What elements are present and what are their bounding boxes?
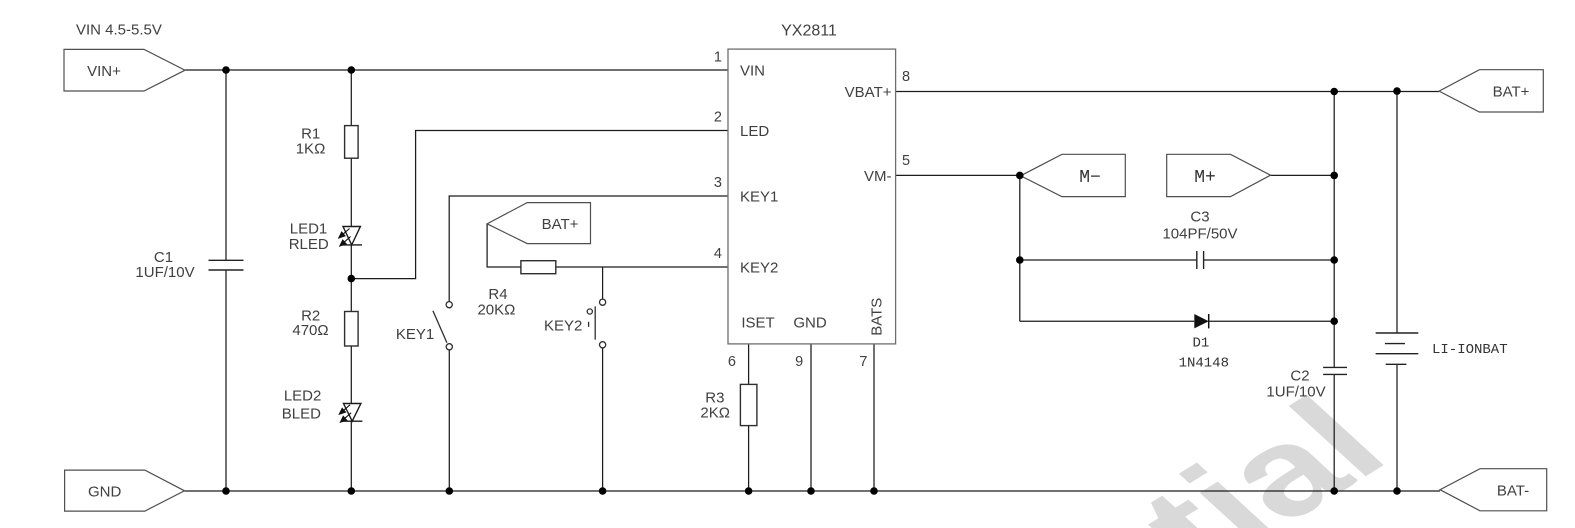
svg-text:7: 7 [859,354,867,370]
svg-text:LED1: LED1 [290,221,328,238]
connector GND [65,470,185,511]
wire C1 branch upper [225,70,227,260]
wire pin5 VM- [896,174,1020,176]
svg-text:GND: GND [793,315,827,332]
svg-text:C3: C3 [1190,209,1209,226]
wire R1 LED1 branch [350,70,352,227]
svg-text:1UF/10V: 1UF/10V [135,264,194,281]
connector BAT- [1440,469,1547,511]
node VBAT+ trunk [1330,88,1338,96]
node rail C2 [1330,487,1338,495]
watermark [520,380,1431,528]
svg-text:6: 6 [728,354,736,370]
wire C1 branch lower [225,271,227,492]
svg-text:1UF/10V: 1UF/10V [1266,384,1325,401]
wire battery bottom [1396,364,1398,491]
battery LI-IONBAT [1376,333,1419,364]
node M+ trunk [1330,172,1338,180]
wire bottom GND rail [185,490,1441,492]
connector M- [1021,154,1126,196]
node rail BATS [870,487,878,495]
node rail C1 bottom [222,487,230,495]
connector VIN+ [64,49,185,91]
node VM- M- tip [1016,172,1024,180]
node rail battery [1393,487,1401,495]
node rail LED2 [348,487,356,495]
node rail KEY2 [599,487,607,495]
svg-text:5: 5 [902,153,910,169]
svg-text:LI-IONBAT: LI-IONBAT [1432,342,1508,358]
node C3 left [1016,256,1024,264]
svg-text:104PF/50V: 104PF/50V [1162,226,1237,243]
node top rail C1 [222,66,230,74]
wire KEY1 bottom to rail [448,350,450,491]
resistor R3 [740,384,757,425]
svg-text:1KΩ: 1KΩ [296,141,326,158]
resistor R2 [345,312,359,347]
connector BAT+ (left) [487,203,590,244]
diode D1 1N4148 [1194,314,1208,328]
connector BAT+ (top right) [1439,70,1543,112]
wire pin2 LED net [352,131,729,279]
svg-text:VIN+: VIN+ [87,63,121,80]
node D1 right [1330,317,1338,325]
svg-text:BAT+: BAT+ [1493,84,1530,101]
svg-text:VIN 4.5-5.5V: VIN 4.5-5.5V [76,22,162,39]
svg-text:RLED: RLED [289,236,329,253]
svg-text:GND: GND [88,484,122,501]
node VBAT+ battery [1393,87,1401,95]
svg-text:2KΩ: 2KΩ [700,405,730,422]
node dots [222,66,1401,495]
node C3 right [1330,256,1338,264]
svg-text:VBAT+: VBAT+ [845,84,892,101]
wire pin4 row BAT+/R4/KEY2 [487,224,728,267]
LED LED1 RLED [343,227,362,245]
svg-text:ISET: ISET [741,315,774,332]
wire M+ tip to trunk [1271,174,1335,176]
wire pin7 BATS to rail [873,344,875,491]
svg-text:M−: M− [1079,168,1101,188]
capacitor C1 [209,260,244,270]
svg-text:3: 3 [714,175,722,191]
switch KEY2 [587,299,606,348]
op IC U1 YX2811 [728,49,896,344]
wire D1 cathode wire [1209,320,1334,322]
wire right trunk lower C2 to rail [1333,374,1335,491]
node rail KEY1 [446,487,454,495]
svg-text:BATS: BATS [869,298,886,336]
wire right trunk upper [1333,92,1335,368]
svg-text:4: 4 [714,246,722,262]
wire C3 right [1204,259,1335,261]
wire pin9 GND to rail [810,344,812,491]
wire pin3 to KEY1 [449,196,728,302]
svg-text:KEY2: KEY2 [544,318,582,335]
svg-text:M+: M+ [1194,168,1216,188]
svg-text:VM-: VM- [864,168,892,185]
resistor R4 [521,261,556,274]
connector M+ [1167,154,1271,196]
svg-text:1N4148: 1N4148 [1179,356,1229,372]
svg-text:20KΩ: 20KΩ [477,302,515,319]
wire top rail VIN+ to pin1 [185,69,728,71]
svg-text:LED: LED [740,123,769,140]
svg-text:KEY1: KEY1 [396,326,434,343]
svg-text:9: 9 [795,354,803,370]
svg-text:BAT+: BAT+ [542,216,579,233]
switch KEY1 [433,302,453,350]
svg-text:8: 8 [902,69,910,85]
wire pin8 VBAT+ rail [896,91,1440,93]
svg-text:Confidential: Confidential [520,380,1431,528]
capacitor C3 [1197,251,1204,269]
wire D1 anode wire [1020,320,1195,322]
node rail R3 [745,487,753,495]
wire LED1 to junction [350,245,352,279]
svg-text:D1: D1 [1192,336,1209,352]
svg-text:R4: R4 [488,286,507,303]
node rail GND pin [807,487,815,495]
wire KEY2 drop [602,267,604,299]
wire M- trunk down [1019,175,1021,321]
wire KEY2 bottom to rail [602,348,604,491]
svg-text:LED2: LED2 [284,388,322,405]
wire LED2 to rail [350,421,352,491]
svg-text:BAT-: BAT- [1497,483,1529,500]
resistor R1 [345,126,359,159]
capacitor C2 [1323,367,1347,374]
wire junction to R2 LED2 [350,279,352,404]
svg-text:C2: C2 [1290,368,1309,385]
svg-text:470Ω: 470Ω [292,322,328,339]
svg-text:KEY1: KEY1 [740,189,778,206]
LED LED2 BLED [342,404,362,422]
svg-text:1: 1 [714,50,722,66]
svg-text:YX2811: YX2811 [781,23,837,40]
svg-text:VIN: VIN [740,63,765,80]
node junction LED1/R2/pin2 [348,275,356,283]
wire C3 left [1020,259,1197,261]
svg-text:BLED: BLED [282,406,321,423]
wire pin6 ISET to rail [748,344,750,491]
svg-text:KEY2: KEY2 [740,260,778,277]
node top rail R1 [348,66,356,74]
svg-text:2: 2 [714,110,722,126]
wire battery top [1396,91,1398,333]
